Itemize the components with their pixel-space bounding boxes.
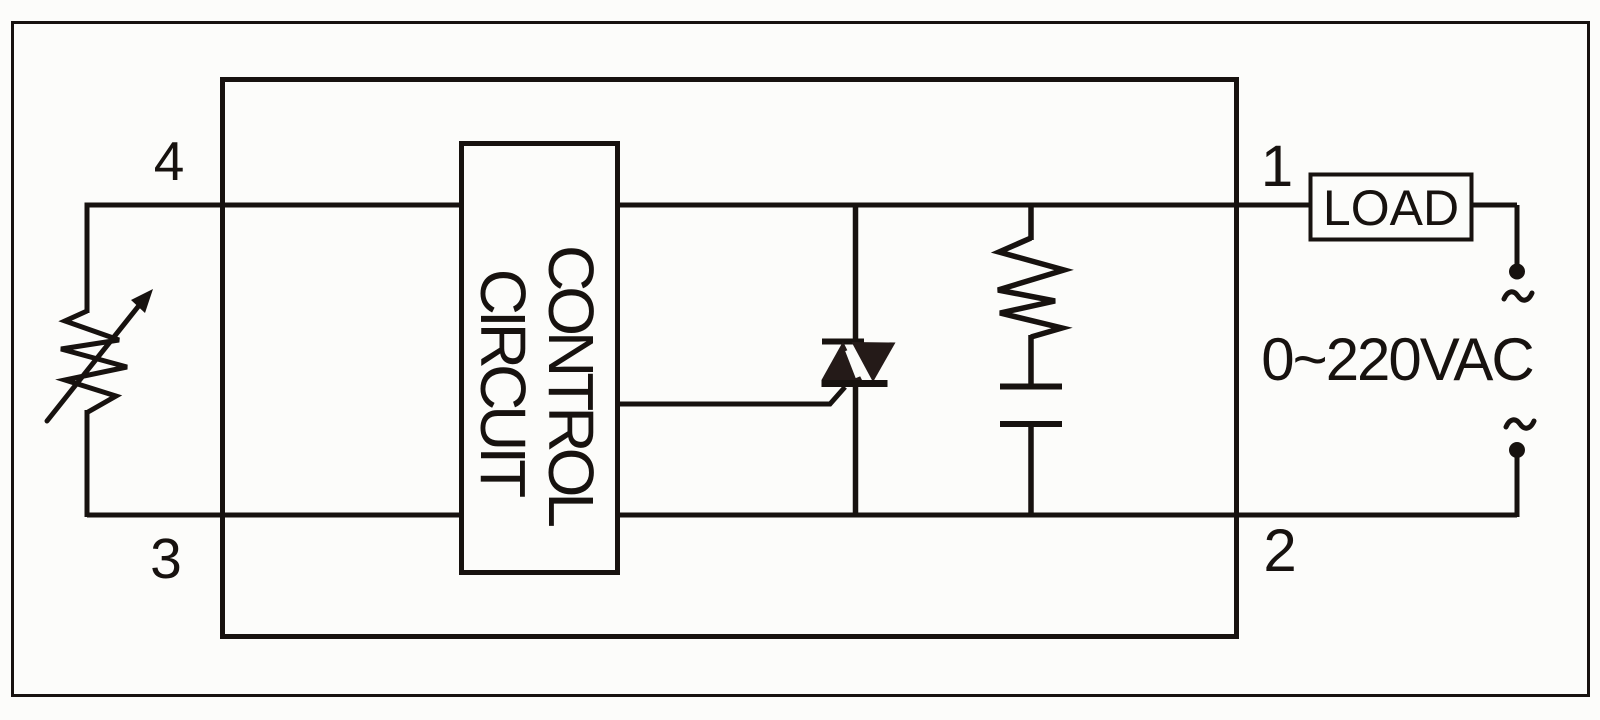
potentiometer RP arrowhead [131,289,153,313]
wire: load to AC terminal (top) [1472,203,1518,208]
wire: gate drive from control circuit to triac [618,387,845,404]
wire: down to AC terminal dot (top) [1515,205,1520,264]
control circuit block U1 [462,144,618,573]
load block [1311,175,1472,240]
triac Q1 top bar (MT2) [822,339,864,345]
wire: triac branch upper [853,205,859,342]
wire: snubber branch upper [1028,205,1034,240]
resistor R1 (snubber) zigzag [998,238,1064,337]
capacitor C1 bottom plate [1000,421,1062,427]
wire: input top (pin 4 net) [87,203,1311,208]
svg-text:LOAD: LOAD [1323,180,1459,236]
wire: left branch lower segment [85,410,90,517]
potentiometer RP arrow shaft [47,303,141,421]
svg-text:2: 2 [1263,517,1296,584]
svg-text:4: 4 [154,130,185,192]
wire: snubber branch lower [1028,424,1034,515]
potentiometer RP zigzag [61,311,127,412]
svg-text:3: 3 [150,527,182,591]
AC symbol ~ (bottom) [1506,420,1534,428]
triac Q1 left triangle [822,342,863,381]
svg-text:CIRCUIT: CIRCUIT [467,269,539,497]
node: AC terminal dot (top) [1509,264,1525,280]
wire: input bottom (pin 3 / pin 2 net) [87,513,1517,518]
svg-text:1: 1 [1261,134,1293,199]
triac Q1 inner white wedge [848,350,859,377]
svg-text:0~220VAC: 0~220VAC [1261,326,1533,393]
wire: AC terminal dot (bottom) down to bottom net [1515,450,1520,517]
svg-text:CONTROL: CONTROL [535,245,607,526]
triac Q1 right triangle [852,342,896,382]
triac Q1 bottom bar (MT1) [822,380,888,387]
wire: triac branch lower [853,384,859,515]
wire: between resistor and capacitor [1028,335,1034,387]
wire: left branch upper segment [85,203,90,314]
AC symbol ~ (top) [1504,292,1532,300]
SSR enclosure outline [223,80,1237,637]
node: AC terminal dot (bottom) [1509,442,1525,458]
capacitor C1 top plate [1000,384,1062,390]
